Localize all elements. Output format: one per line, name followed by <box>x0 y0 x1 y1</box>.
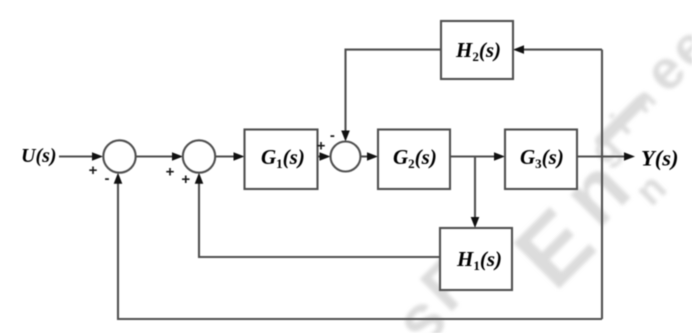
wire H2 output down to S3 <box>341 50 441 142</box>
svg-text:G2(s): G2(s) <box>393 145 437 171</box>
svg-text:U(s): U(s) <box>21 145 57 167</box>
wire G1 to summing junction S3 <box>318 152 331 161</box>
summing junction S3 <box>331 142 361 172</box>
wire feedback into H2 <box>513 45 602 54</box>
svg-text:+: + <box>89 162 98 179</box>
wire U(s) to summing junction S1 <box>59 152 103 161</box>
wire S2 to block G1 <box>215 152 244 161</box>
block H1 <box>440 228 512 290</box>
svg-text:H1(s): H1(s) <box>456 247 502 273</box>
svg-text:+: + <box>166 164 175 181</box>
wire outer feedback loop up into S1 <box>114 173 602 319</box>
block G1 <box>245 130 318 190</box>
summing junction S2 <box>183 140 215 172</box>
block G2 <box>378 130 450 190</box>
svg-text:+: + <box>181 171 190 188</box>
svg-text:G1(s): G1(s) <box>261 145 305 171</box>
white backing for output label <box>636 142 692 172</box>
svg-text:H2(s): H2(s) <box>455 38 501 64</box>
wire output takeoff vertical line <box>601 50 603 319</box>
wire takeoff down into H1 <box>471 157 480 229</box>
svg-text:Y(s): Y(s) <box>641 146 679 171</box>
block H2 <box>441 21 513 79</box>
svg-text:-: - <box>105 170 110 187</box>
wire H1 output up into S2 <box>195 173 440 257</box>
wire S3 to block G2 <box>361 152 379 161</box>
svg-text:G3(s): G3(s) <box>520 145 564 171</box>
wire S1 to S2 <box>136 152 183 161</box>
svg-text:-: - <box>330 127 335 144</box>
summing junction S1 <box>103 140 135 172</box>
wire G2 to G3 with takeoff node <box>450 152 505 161</box>
wire G3 to output Y(s) <box>577 152 635 161</box>
block G3 <box>505 130 577 190</box>
svg-text:+: + <box>317 138 326 155</box>
